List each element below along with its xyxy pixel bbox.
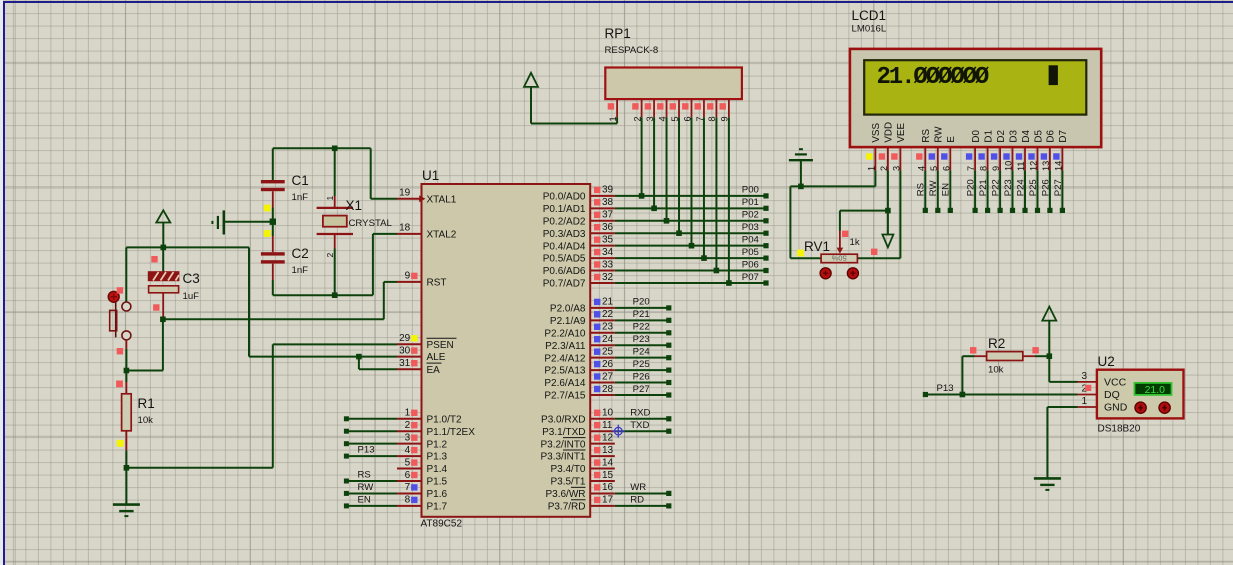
wire RP1 pin5 to P03 — [678, 117, 680, 233]
U2 pin 3 VCC — [1078, 371, 1127, 389]
U1 pin 27 P2.6/A14 — [544, 371, 614, 389]
wire LCD data P24 — [1024, 170, 1026, 210]
U1 pin 12 P3.2/INT0 — [540, 432, 614, 450]
U1 pin 25 P2.4/A12 — [544, 346, 614, 364]
wire P1.3 net — [347, 455, 397, 457]
wire net P27 — [615, 394, 669, 396]
junction VSS/ground — [798, 184, 804, 190]
svg-text:P25: P25 — [633, 359, 650, 370]
svg-text:D4: D4 — [1021, 130, 1032, 143]
svg-text:P2.6/A14: P2.6/A14 — [544, 378, 586, 389]
LCD pin 10 D3 — [1003, 130, 1019, 171]
svg-text:16: 16 — [602, 482, 614, 493]
svg-text:P0.6/AD6: P0.6/AD6 — [543, 266, 586, 277]
junction button/R1/C3 node — [124, 368, 130, 374]
resistor R1 body — [122, 382, 132, 450]
svg-text:VEE: VEE — [896, 123, 907, 143]
svg-text:14: 14 — [602, 457, 614, 468]
terminal square P22 — [666, 330, 671, 335]
terminal square P20 — [666, 305, 671, 310]
LCD pin 4 RS — [916, 129, 932, 171]
terminal square WR — [666, 491, 671, 496]
power terminal VCC (reset circuit) — [156, 210, 170, 247]
svg-text:2: 2 — [879, 166, 889, 171]
svg-text:5: 5 — [405, 457, 411, 468]
U1 pin 29 PSEN — [397, 333, 457, 351]
svg-text:P27: P27 — [1053, 179, 1064, 196]
svg-text:3: 3 — [405, 432, 411, 443]
terminal square P25 — [666, 368, 671, 373]
wire RP1 pin1 to VCC — [531, 117, 617, 123]
svg-text:EN: EN — [941, 183, 952, 196]
IC U1 AT89C52 body — [422, 184, 591, 517]
terminal square P26 — [1047, 208, 1052, 213]
svg-text:P26: P26 — [1040, 179, 1051, 196]
svg-text:PSEN: PSEN — [427, 340, 454, 351]
svg-text:9: 9 — [991, 166, 1001, 171]
svg-text:ALE: ALE — [427, 352, 446, 363]
wire net RXD — [615, 418, 669, 420]
svg-text:10: 10 — [602, 408, 614, 419]
crystal X1 — [317, 148, 353, 295]
svg-text:P0.3/AD3: P0.3/AD3 — [543, 229, 586, 240]
wire RP1 pin4 to P02 — [666, 117, 668, 221]
wire RP1 pin9 to P07 — [728, 117, 730, 283]
U1 pin 24 P2.3/A11 — [545, 334, 615, 352]
svg-text:EN: EN — [358, 494, 371, 505]
svg-text:8: 8 — [979, 166, 989, 171]
svg-text:E: E — [946, 136, 957, 143]
U1 pin 23 P2.2/A10 — [544, 322, 614, 340]
svg-text:P1.3: P1.3 — [427, 452, 448, 463]
U1 pin 36 P0.3/AD3 — [543, 222, 615, 240]
terminal square P1.3 — [344, 454, 349, 459]
svg-text:R1: R1 — [138, 396, 155, 411]
svg-text:D3: D3 — [1008, 130, 1019, 143]
svg-text:4: 4 — [916, 166, 926, 171]
svg-text:12: 12 — [1029, 161, 1039, 171]
wire net P25 — [615, 369, 669, 371]
svg-text:RESPACK-8: RESPACK-8 — [605, 45, 659, 56]
terminal square P02 — [763, 218, 768, 223]
svg-text:P20: P20 — [966, 179, 977, 196]
wire DQ net P13 — [925, 394, 1077, 396]
svg-text:DS18B20: DS18B20 — [1098, 424, 1141, 435]
terminal square P27 — [666, 392, 671, 397]
svg-text:13: 13 — [1041, 161, 1051, 171]
pin marker square R1 bottom (yellow) — [117, 440, 124, 447]
wire LCD EN — [949, 170, 951, 210]
wire reset rail horizontal — [126, 246, 249, 248]
junction P00 — [639, 193, 645, 199]
pin marker square RV1 (yellow) — [797, 250, 804, 257]
wire P1.7 net — [347, 505, 397, 507]
ground symbol below R1 — [113, 505, 140, 516]
pin marker square R1 top — [116, 381, 123, 388]
svg-text:6: 6 — [405, 470, 411, 481]
svg-text:1uF: 1uF — [183, 291, 200, 302]
svg-text:GND: GND — [1104, 402, 1128, 414]
svg-text:P3.0/RXD: P3.0/RXD — [541, 414, 585, 425]
svg-text:LM016L: LM016L — [852, 24, 887, 35]
terminal square RXD — [666, 416, 671, 421]
wire LCD VEE down to RV1 right — [857, 170, 900, 258]
terminal square P21 — [985, 208, 990, 213]
svg-text:D0: D0 — [971, 130, 982, 143]
U1 pin 1 P1.0/T2 — [397, 408, 462, 426]
wire RST vertical — [383, 282, 385, 319]
RP1 pin 1 — [608, 99, 618, 121]
terminal square P03 — [763, 231, 768, 236]
svg-text:P24: P24 — [1015, 179, 1026, 197]
pin marker square button bottom — [117, 348, 123, 354]
svg-text:1k: 1k — [850, 237, 860, 248]
svg-text:P05: P05 — [742, 247, 759, 258]
wire XTAL1 connection — [371, 148, 397, 199]
svg-text:RD: RD — [630, 495, 644, 506]
wire EA drop — [358, 357, 360, 370]
wire net P06 — [615, 270, 766, 272]
wire net P03 — [615, 232, 766, 234]
terminal square RW — [935, 208, 940, 213]
svg-text:38: 38 — [602, 197, 614, 208]
svg-text:39: 39 — [602, 185, 614, 196]
svg-text:VCC: VCC — [1104, 377, 1127, 389]
svg-text:34: 34 — [602, 247, 614, 258]
wire wiper horizontal — [840, 210, 888, 212]
svg-text:21: 21 — [602, 297, 614, 308]
wire ground node to PSEN column — [126, 467, 272, 469]
RP1 pin 3 — [645, 99, 655, 121]
svg-text:P23: P23 — [1003, 179, 1014, 196]
svg-text:RS: RS — [916, 183, 927, 196]
U1 pin 38 P0.1/AD1 — [543, 197, 615, 215]
wire net P04 — [615, 245, 766, 247]
svg-text:P06: P06 — [742, 259, 759, 270]
terminal square P20 — [973, 208, 978, 213]
pin marker square R2 right — [1032, 347, 1038, 353]
terminal square P1.2 — [344, 441, 349, 446]
svg-text:P0.7/AD7: P0.7/AD7 — [543, 279, 586, 290]
RV1 adjust buttons — [820, 268, 858, 279]
svg-text:RP1: RP1 — [605, 26, 631, 41]
terminal square P1.6 — [344, 491, 349, 496]
svg-text:4: 4 — [405, 445, 411, 456]
wire XTAL2 connection — [373, 234, 397, 295]
svg-text:3: 3 — [891, 166, 901, 171]
LCD pin 6 E — [941, 136, 957, 171]
LCD pin 11 D4 — [1016, 130, 1032, 171]
terminal square P04 — [763, 243, 768, 248]
terminal square P00 — [763, 193, 768, 198]
svg-text:WR: WR — [630, 482, 646, 493]
mouse cursor crosshair — [612, 425, 625, 438]
junction DQ/R2 — [960, 392, 966, 398]
sheet left margin strip — [0, 0, 3, 565]
svg-text:11: 11 — [1016, 161, 1026, 171]
svg-text:RS: RS — [358, 470, 371, 481]
wire VCC down to U2 pin3 — [1049, 356, 1077, 382]
wire wiper drop — [839, 211, 841, 231]
U1 pin 33 P0.6/AD6 — [543, 259, 615, 277]
svg-text:P00: P00 — [742, 185, 759, 196]
terminal square P23 — [666, 343, 671, 348]
U2 temperature display 21.0 — [1135, 383, 1172, 396]
U2 pin 2 DQ — [1078, 384, 1120, 401]
svg-text:RW: RW — [928, 180, 939, 197]
junction P07 — [726, 280, 732, 286]
svg-text:X1: X1 — [346, 198, 363, 213]
svg-text:P1.1/T2EX: P1.1/T2EX — [427, 427, 476, 438]
svg-text:P20: P20 — [633, 297, 650, 308]
LCD pin 2 VDD — [879, 122, 895, 171]
capacitor C3 (1uF) — [149, 247, 179, 319]
U1 pin 19 XTAL1 — [397, 188, 457, 206]
terminal square P1.1 — [344, 429, 349, 434]
wire LCD data P21 — [987, 170, 989, 210]
svg-text:LCD1: LCD1 — [852, 8, 887, 23]
svg-text:D5: D5 — [1033, 130, 1044, 143]
sheet border top (blue) — [3, 1, 1233, 3]
RP1 pin 6 — [682, 99, 692, 121]
svg-text:36: 36 — [602, 222, 614, 233]
wire LCD data P26 — [1049, 170, 1051, 210]
terminal square P27 — [1060, 208, 1065, 213]
svg-text:1: 1 — [405, 408, 411, 419]
capacitor C1 (1nF) — [261, 148, 285, 207]
svg-text:D7: D7 — [1058, 130, 1069, 143]
wire P1.5 net — [347, 480, 397, 482]
svg-text:RST: RST — [427, 278, 447, 289]
svg-text:P1.5: P1.5 — [427, 477, 448, 488]
svg-text:21.0: 21.0 — [1145, 384, 1166, 396]
svg-text:P3.1/TXD: P3.1/TXD — [542, 427, 585, 438]
U1 pin 28 P2.7/A15 — [544, 384, 614, 402]
svg-text:P1.0/T2: P1.0/T2 — [427, 414, 462, 425]
wire LCD RS — [924, 170, 926, 210]
LCD pin 13 D6 — [1041, 130, 1057, 171]
LCD pin 5 RW — [929, 126, 945, 171]
wire LCD data P27 — [1061, 170, 1063, 210]
terminal square P23 — [1010, 208, 1015, 213]
wire rail down to ALE (right corner) — [248, 247, 250, 356]
terminal square P22 — [998, 208, 1003, 213]
svg-text:37: 37 — [602, 210, 614, 221]
terminal square TXD — [666, 429, 671, 434]
svg-text:XTAL2: XTAL2 — [427, 230, 457, 241]
LCD pin 12 D5 — [1028, 130, 1044, 171]
terminal square P06 — [763, 268, 768, 273]
terminal square P01 — [763, 206, 768, 211]
wire P1.1 net — [347, 430, 397, 432]
junction C3/RST — [160, 317, 166, 323]
wire rail down to button — [125, 247, 127, 302]
wire VSS node down to RV1 left — [790, 186, 821, 258]
svg-text:C2: C2 — [292, 246, 309, 261]
U1 pin 16 P3.6/WR — [545, 482, 614, 500]
sheet border left (blue) — [3, 1, 5, 565]
LCD screen — [864, 60, 1086, 114]
svg-text:XTAL1: XTAL1 — [427, 194, 457, 205]
U1 pin 32 P0.7/AD7 — [543, 272, 615, 290]
wire R1 to ground — [125, 450, 127, 504]
wire RP1 pin8 to P06 — [715, 117, 717, 270]
U1 pin 8 P1.7 — [397, 495, 448, 513]
U1 pin 5 P1.4 — [397, 457, 448, 475]
svg-text:VSS: VSS — [871, 123, 882, 143]
pin marker square C3 bottom — [153, 304, 159, 310]
svg-text:32: 32 — [602, 272, 614, 283]
svg-text:5: 5 — [929, 166, 939, 171]
svg-text:P0.5/AD5: P0.5/AD5 — [543, 254, 586, 265]
svg-text:P1.4: P1.4 — [427, 464, 448, 475]
svg-text:U1: U1 — [422, 168, 439, 183]
svg-text:10: 10 — [1004, 161, 1014, 171]
terminal square EN — [948, 208, 953, 213]
wire net WR — [615, 492, 669, 494]
terminal square P1.7 — [344, 503, 349, 508]
svg-text:P3.4/T0: P3.4/T0 — [550, 464, 585, 475]
wire LCD data P25 — [1037, 170, 1039, 210]
U1 pin 26 P2.5/A13 — [544, 359, 614, 377]
wire LCD data P22 — [999, 170, 1001, 210]
svg-text:P1.7: P1.7 — [427, 501, 448, 512]
svg-text:1: 1 — [1081, 396, 1087, 407]
svg-text:1nF: 1nF — [292, 192, 309, 203]
svg-text:TXD: TXD — [630, 420, 649, 431]
wire LCD data P23 — [1012, 170, 1014, 210]
terminal square P24 — [666, 355, 671, 360]
U1 pin 18 XTAL2 — [397, 223, 457, 241]
wire LCD VDD down — [887, 170, 889, 210]
svg-text:P13: P13 — [358, 445, 375, 456]
svg-text:10k: 10k — [988, 365, 1004, 376]
potentiometer RV1 body — [821, 231, 857, 263]
terminal square P26 — [666, 380, 671, 385]
U1 pin 37 P0.2/AD2 — [543, 210, 615, 228]
wire LCD RW — [937, 170, 939, 210]
ground symbol above VSS wire — [789, 149, 813, 186]
U1 pin 31 EA — [397, 358, 442, 376]
terminal square P25 — [1035, 208, 1040, 213]
svg-text:2: 2 — [325, 253, 335, 258]
terminal square P1.0 — [344, 416, 349, 421]
wire RST to pin — [384, 281, 397, 283]
wire net P02 — [615, 220, 766, 222]
wire ALE horizontal — [249, 356, 397, 358]
svg-text:12: 12 — [602, 432, 614, 443]
svg-text:27: 27 — [602, 371, 614, 382]
pin marker square button top — [117, 287, 123, 293]
svg-text:R2: R2 — [988, 336, 1005, 351]
svg-text:EA: EA — [427, 365, 441, 376]
svg-text:RXD: RXD — [630, 408, 650, 419]
svg-text:19: 19 — [399, 188, 411, 199]
svg-text:VDD: VDD — [884, 122, 895, 143]
terminal square RS — [923, 208, 928, 213]
terminal square P24 — [1022, 208, 1027, 213]
svg-text:21.ØØØØØØ: 21.ØØØØØØ — [877, 64, 989, 91]
LCD pin 3 VEE — [891, 123, 907, 171]
pin marker square C3 top — [151, 256, 157, 262]
svg-text:C1: C1 — [292, 173, 309, 188]
RP1 pin 5 — [670, 99, 680, 121]
LCD pin 8 D1 — [978, 130, 994, 171]
svg-text:RW: RW — [358, 482, 375, 493]
svg-text:1nF: 1nF — [292, 265, 309, 276]
svg-text:18: 18 — [399, 223, 411, 234]
U1 pin 3 P1.2 — [397, 432, 448, 450]
svg-text:9: 9 — [405, 271, 411, 282]
U1 pin 11 P3.1/TXD — [542, 420, 615, 438]
svg-text:P2.5/A13: P2.5/A13 — [544, 366, 586, 377]
svg-text:P01: P01 — [742, 197, 759, 208]
svg-text:P3.7/RD: P3.7/RD — [548, 501, 586, 512]
svg-text:35: 35 — [602, 234, 614, 245]
svg-text:D1: D1 — [983, 130, 994, 143]
svg-text:P26: P26 — [633, 371, 650, 382]
svg-text:RW: RW — [934, 126, 945, 143]
ground symbol (rotated) at C1/C2 node — [212, 210, 272, 234]
power terminal VCC (RP1) — [524, 73, 538, 124]
wire R2 left to DQ net — [962, 356, 974, 394]
svg-text:P2.4/A12: P2.4/A12 — [544, 353, 586, 364]
wire node to C3 column — [126, 370, 162, 372]
terminal square P1.5 — [344, 479, 349, 484]
U1 pin 4 P1.3 — [397, 445, 448, 463]
terminal square P07 — [763, 280, 768, 285]
pin stub button bottom — [125, 340, 127, 349]
junction R1 ground / PSEN net — [124, 465, 130, 471]
svg-text:P07: P07 — [742, 272, 759, 283]
wire P1.2 net — [347, 443, 397, 445]
wire RP1 pin6 to P04 — [690, 117, 692, 245]
wire net P26 — [615, 382, 669, 384]
terminal square P05 — [763, 256, 768, 261]
junction X1 pin2 / C2 wire — [332, 292, 338, 298]
wire net P01 — [615, 207, 766, 209]
svg-text:10k: 10k — [138, 415, 154, 426]
RP1 pin 7 — [695, 99, 705, 121]
wire PSEN column vertical — [272, 344, 274, 467]
svg-text:P21: P21 — [978, 179, 989, 196]
wire net P00 — [615, 195, 766, 197]
svg-text:P3.5/T1: P3.5/T1 — [550, 477, 585, 488]
svg-text:P0.1/AD1: P0.1/AD1 — [543, 204, 586, 215]
svg-text:6: 6 — [941, 166, 951, 171]
junction ALE/EA — [356, 354, 362, 360]
ground symbol below U2 — [1034, 478, 1061, 490]
svg-text:15: 15 — [602, 470, 614, 481]
junction P06 — [714, 268, 720, 274]
svg-text:D2: D2 — [996, 130, 1007, 143]
LCD pin 9 D2 — [991, 130, 1007, 171]
svg-text:CRYSTAL: CRYSTAL — [349, 218, 393, 229]
pin marker square RV1 wiper — [842, 231, 848, 237]
pin marker square C1 bottom (yellow) — [264, 205, 271, 212]
svg-text:P25: P25 — [1028, 179, 1039, 196]
svg-text:P03: P03 — [742, 222, 759, 233]
wire PSEN horizontal — [273, 343, 397, 345]
pin marker square C2 top (yellow) — [264, 230, 271, 237]
svg-text:26: 26 — [602, 359, 614, 370]
junction P01 — [651, 206, 657, 212]
wire net P07 — [615, 282, 766, 284]
wire net P22 — [615, 332, 669, 334]
junction reset rail / power — [161, 245, 167, 251]
wire GND to ground — [1047, 407, 1077, 477]
LCD pin 7 D0 — [966, 130, 982, 171]
